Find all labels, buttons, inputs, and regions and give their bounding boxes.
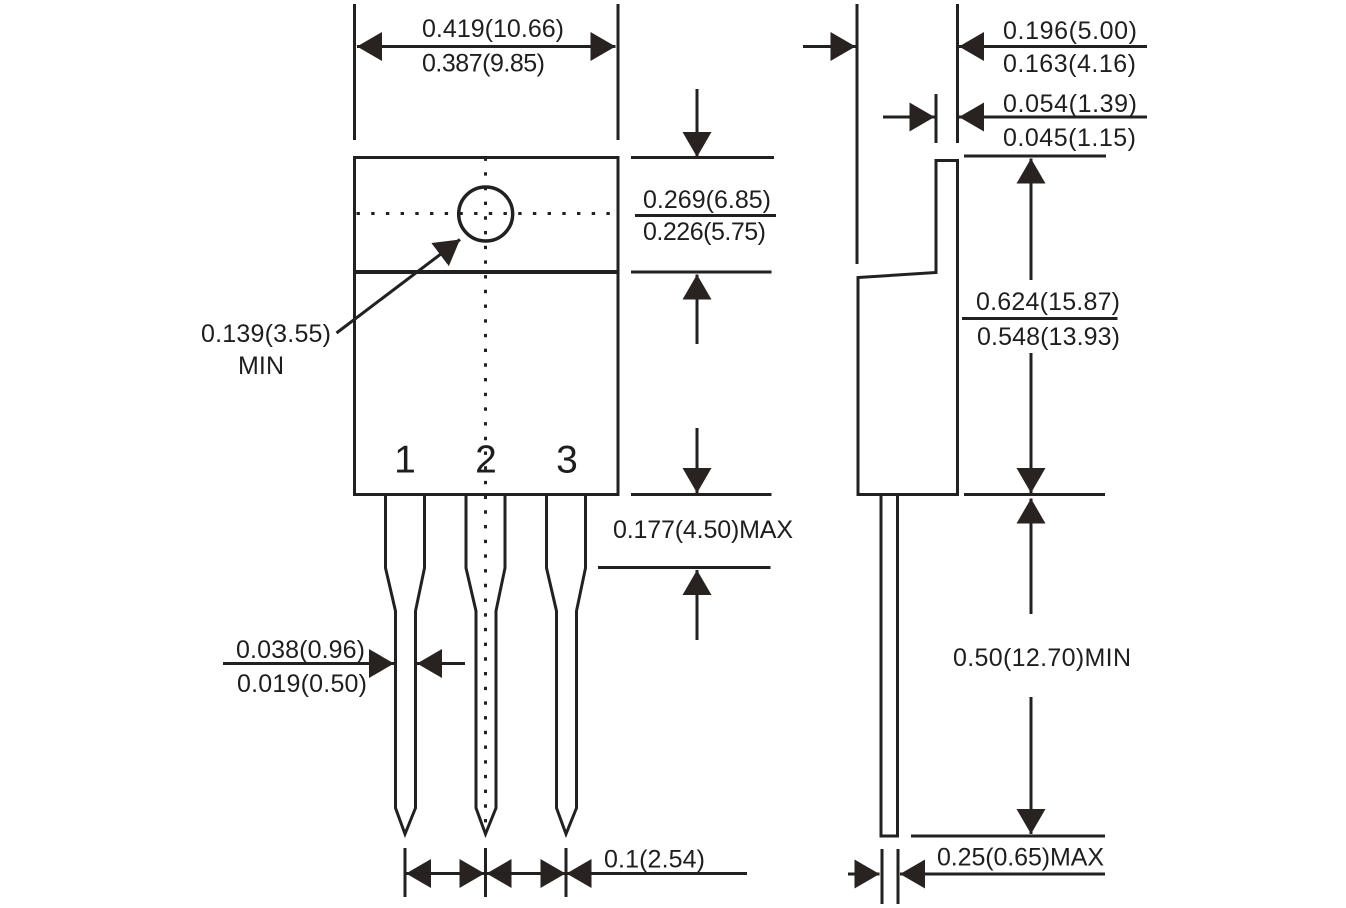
side view lead bottom cap	[880, 835, 900, 838]
leader arrow to mounting hole	[337, 240, 461, 334]
horizontal center line dotted	[357, 212, 617, 215]
side view outline	[858, 161, 958, 495]
side view: extension line body left	[856, 4, 859, 264]
tab height dim: reference line bottom	[631, 271, 772, 274]
pin 1 outline	[386, 494, 425, 834]
pitch dim: tick 3	[565, 848, 568, 897]
pitch dim: arrow right at tick2	[406, 872, 485, 875]
mounting hole	[459, 187, 513, 241]
front view body outline	[355, 158, 619, 495]
0.50 dim: bottom reference line	[911, 835, 1105, 838]
0.25 dim: extension line right	[897, 849, 900, 904]
0.25 dim: right arrow	[900, 873, 1105, 876]
svg-text:0.196(5.00): 0.196(5.00)	[1003, 17, 1137, 45]
pitch dim: arrow left at tick2	[487, 872, 567, 875]
pin width dim: right line with left arrow	[417, 662, 465, 665]
svg-text:0.419(10.66): 0.419(10.66)	[422, 15, 564, 43]
svg-text:0.019(0.50): 0.019(0.50)	[237, 670, 367, 698]
svg-text:0.163(4.16): 0.163(4.16)	[1003, 50, 1136, 78]
0.196 dim: right arrow	[959, 45, 1147, 48]
svg-text:0.1(2.54): 0.1(2.54)	[604, 846, 705, 874]
side view: extension line body right	[956, 4, 959, 143]
svg-text:0.25(0.65)MAX: 0.25(0.65)MAX	[937, 844, 1104, 872]
0.054 dim: left arrow	[883, 116, 935, 119]
pitch dim: tick 2	[484, 848, 487, 897]
svg-text:0.045(1.15): 0.045(1.15)	[1003, 124, 1136, 152]
0.25 dim: left arrow	[848, 873, 880, 876]
svg-text:1: 1	[394, 439, 416, 482]
pin 3 outline	[547, 494, 586, 834]
0.196 dim: left arrow	[803, 45, 856, 48]
0.50 dim: up arrow	[1030, 499, 1033, 615]
pin width dim: left line with right arrow	[223, 662, 394, 665]
0.177 dim: reference line at body bottom	[631, 493, 772, 496]
svg-text:0.50(12.70)MIN: 0.50(12.70)MIN	[953, 644, 1131, 672]
svg-text:0.624(15.87): 0.624(15.87)	[976, 288, 1120, 316]
0.624 dim: reference line top	[964, 155, 1106, 158]
vertical center line dotted	[484, 158, 487, 832]
tab height dim: reference line top	[631, 156, 774, 159]
svg-text:0.038(0.96): 0.038(0.96)	[236, 636, 365, 664]
pitch dim: arrow left at tick3 with tail	[567, 872, 748, 875]
tab height dim: down arrow	[696, 89, 699, 157]
tab height dim: fraction bar	[635, 214, 776, 217]
0.624 dim: fraction bar	[962, 317, 1118, 320]
front view: extension line right of top width dim	[617, 4, 620, 140]
pitch dim: arrow left at tick1	[406, 872, 485, 875]
0.25 dim: extension line left	[881, 849, 884, 904]
pitch dim: arrow right at tick3	[487, 872, 566, 875]
dimension 0.419/0.387 arrow right	[486, 45, 616, 48]
svg-text:3: 3	[556, 439, 578, 482]
tab lower edge line	[355, 270, 619, 274]
svg-text:0.177(4.50)MAX: 0.177(4.50)MAX	[613, 516, 793, 544]
0.624 dim: reference line bottom	[964, 493, 1105, 496]
tab height dim: up arrow	[696, 275, 699, 345]
0.624 dim: up arrow	[1030, 159, 1033, 281]
side view lead left line	[880, 496, 883, 836]
0.054 dim: right arrow	[959, 116, 1147, 119]
svg-text:0.226(5.75): 0.226(5.75)	[643, 218, 766, 246]
svg-text:0.269(6.85): 0.269(6.85)	[643, 186, 771, 214]
svg-text:0.387(9.85): 0.387(9.85)	[422, 50, 545, 78]
svg-text:2: 2	[475, 439, 497, 482]
0.177 dim: reference line at pin shoulder	[598, 566, 771, 569]
0.50 dim: down arrow	[1030, 697, 1033, 834]
svg-text:0.548(13.93): 0.548(13.93)	[977, 323, 1120, 351]
side view: extension line tab left	[935, 94, 938, 143]
0.177 dim: up arrow	[696, 570, 699, 640]
0.624 dim: down arrow	[1030, 353, 1033, 493]
pitch dim: tick 1	[404, 848, 407, 897]
side view lead right line	[896, 496, 899, 836]
svg-text:0.054(1.39): 0.054(1.39)	[1003, 90, 1137, 118]
dimension 0.419/0.387 arrow left	[357, 45, 486, 48]
svg-text:0.139(3.55): 0.139(3.55)	[201, 320, 331, 348]
svg-text:MIN: MIN	[238, 352, 284, 380]
0.177 dim: down arrow	[696, 428, 699, 493]
front view: extension line left of top width dim	[353, 4, 356, 140]
pin 2 outline	[466, 494, 505, 834]
